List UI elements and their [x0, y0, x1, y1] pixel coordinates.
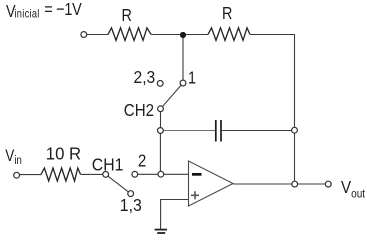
wire op-amp output to Vout terminal: [233, 183, 326, 185]
junction node A (filled dot): [180, 32, 186, 38]
svg-text:10 R: 10 R: [46, 143, 81, 164]
wire inverting node to op-amp minus input: [161, 173, 189, 175]
wire Vin terminal to 10R resistor: [20, 174, 42, 176]
terminal circle Vinicial: [81, 32, 87, 38]
inverting input node circle: [158, 171, 164, 177]
capacitor C right plate: [220, 120, 222, 142]
wire node A down to CH2 contact 1: [182, 35, 184, 83]
CH1 contact 2 circle: [132, 171, 138, 177]
svg-text:CH1: CH1: [92, 155, 124, 175]
wire 10R to CH1 pole: [81, 173, 106, 175]
resistor 10R: [41, 168, 81, 181]
op-amp U1 triangle: [189, 161, 234, 206]
wire capacitor node to left plate: [161, 130, 216, 132]
svg-text:Vinicial = −1V: Vinicial = −1V: [6, 0, 82, 21]
op-amp minus input symbol: [192, 173, 202, 176]
resistor R2: [208, 28, 250, 41]
CH2 contact 1 circle: [180, 80, 186, 86]
CH2 pole circle: [158, 106, 164, 112]
terminal circle Vout: [325, 181, 331, 187]
wire op-amp plus input to ground: [161, 200, 189, 230]
CH2 contact 2,3 circle: [157, 81, 163, 87]
svg-text:R: R: [222, 4, 232, 24]
wire R2 to top-right corner: [250, 35, 295, 131]
wire from Vinicial terminal to R1: [87, 34, 108, 36]
svg-text:CH2: CH2: [124, 100, 154, 121]
output node circle: [292, 181, 298, 187]
svg-text:1,3: 1,3: [120, 195, 142, 215]
svg-text:2: 2: [138, 150, 146, 171]
wire CH1 contact 2 to inverting node: [135, 173, 161, 175]
wire capacitor node down to inverting input node: [159, 131, 161, 175]
CH1 contact 1,3 circle: [128, 191, 134, 197]
wire capacitor right plate to right node: [221, 130, 295, 132]
op-amp plus input symbol: [191, 191, 199, 199]
switch CH2 blade: [161, 83, 184, 109]
svg-text:Vout: Vout: [341, 177, 365, 201]
svg-text:R: R: [122, 6, 132, 26]
ground symbol: [155, 230, 167, 233]
terminal circle Vin: [14, 172, 20, 178]
wire CH2 pole down to capacitor node: [160, 109, 162, 131]
wire right node down to output node: [294, 131, 296, 185]
capacitor node circle: [158, 128, 164, 134]
svg-text:2,3: 2,3: [134, 67, 156, 87]
wire R1 to node A to R2: [151, 34, 208, 36]
right feedback node circle: [292, 127, 298, 133]
switch CH1 blade: [106, 174, 131, 193]
svg-text:Vin: Vin: [5, 147, 22, 168]
capacitor C left plate: [215, 120, 217, 142]
svg-text:1: 1: [188, 68, 196, 88]
CH1 pole circle: [103, 172, 109, 178]
resistor R1: [108, 28, 151, 41]
